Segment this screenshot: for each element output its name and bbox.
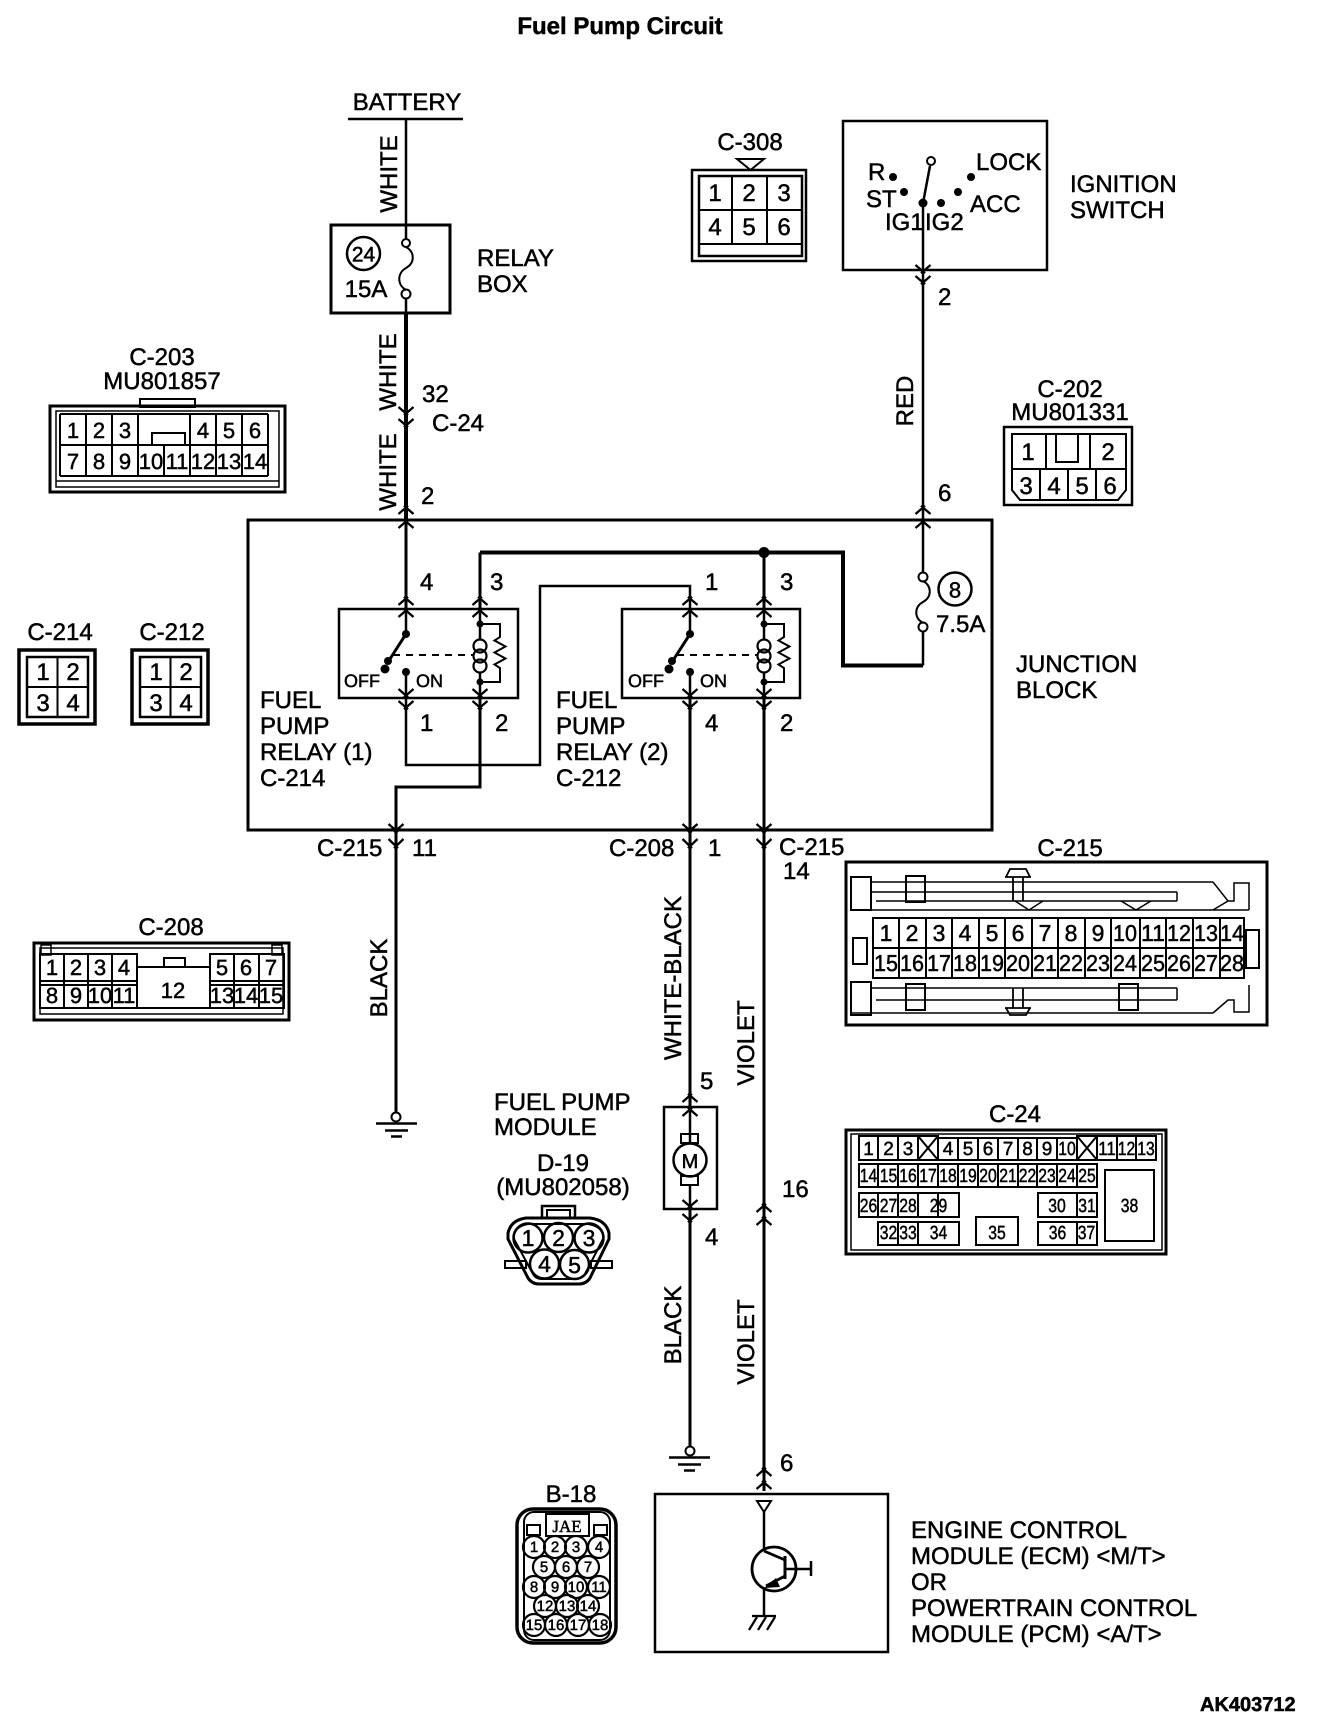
svg-text:24: 24 bbox=[352, 244, 376, 267]
svg-text:3: 3 bbox=[583, 1225, 596, 1251]
svg-text:JUNCTION: JUNCTION bbox=[1016, 651, 1137, 678]
svg-text:16: 16 bbox=[899, 1166, 917, 1187]
svg-text:32: 32 bbox=[880, 1223, 898, 1244]
svg-text:1: 1 bbox=[863, 1139, 874, 1160]
svg-text:16: 16 bbox=[900, 950, 924, 976]
svg-text:1: 1 bbox=[530, 1539, 538, 1556]
wire ignition to junction block (RED) bbox=[922, 270, 925, 519]
svg-text:7: 7 bbox=[1039, 920, 1052, 946]
bottom rail bbox=[851, 982, 871, 1015]
svg-text:BLACK: BLACK bbox=[660, 1286, 687, 1365]
row3 bbox=[859, 1193, 938, 1217]
svg-text:29: 29 bbox=[930, 1196, 948, 1217]
svg-text:15: 15 bbox=[874, 950, 898, 976]
svg-text:8: 8 bbox=[530, 1579, 538, 1596]
svg-text:M: M bbox=[682, 1151, 699, 1173]
svg-text:7.5A: 7.5A bbox=[936, 611, 985, 638]
relay1 coil bbox=[474, 609, 487, 698]
svg-text:11: 11 bbox=[113, 983, 136, 1008]
svg-text:14: 14 bbox=[783, 858, 810, 885]
svg-text:3: 3 bbox=[149, 690, 162, 717]
svg-text:26: 26 bbox=[1167, 950, 1191, 976]
svg-text:34: 34 bbox=[930, 1223, 948, 1244]
svg-text:C-203: C-203 bbox=[129, 344, 194, 371]
svg-text:C-208: C-208 bbox=[138, 914, 203, 941]
wire relay1 pin1 to relay2 pin1 bbox=[406, 586, 690, 765]
svg-text:22: 22 bbox=[1019, 1166, 1037, 1187]
svg-text:5: 5 bbox=[568, 1252, 581, 1278]
svg-text:18: 18 bbox=[939, 1166, 957, 1187]
svg-text:2: 2 bbox=[66, 659, 79, 686]
svg-text:ENGINE CONTROL: ENGINE CONTROL bbox=[911, 1517, 1127, 1544]
svg-text:17: 17 bbox=[570, 1617, 587, 1634]
number grid bbox=[873, 918, 1244, 978]
svg-text:2: 2 bbox=[552, 1225, 565, 1251]
svg-text:30: 30 bbox=[1048, 1196, 1066, 1217]
svg-text:3: 3 bbox=[119, 418, 131, 443]
pump motor M bbox=[674, 1107, 707, 1209]
svg-text:IG2: IG2 bbox=[925, 209, 964, 236]
svg-text:19: 19 bbox=[959, 1166, 977, 1187]
bus wire from relay1 pin3 to fuse bbox=[480, 551, 923, 666]
svg-text:1: 1 bbox=[708, 835, 721, 862]
relay box bbox=[331, 225, 554, 313]
svg-text:OR: OR bbox=[911, 1569, 947, 1596]
svg-text:5: 5 bbox=[700, 1068, 713, 1095]
svg-text:1: 1 bbox=[705, 569, 718, 596]
svg-text:B-18: B-18 bbox=[546, 1481, 597, 1508]
svg-text:RELAY (1): RELAY (1) bbox=[260, 739, 373, 766]
connector C-215 big bbox=[846, 835, 1267, 1025]
svg-text:22: 22 bbox=[1059, 950, 1083, 976]
svg-text:12: 12 bbox=[1118, 1139, 1136, 1160]
svg-text:10: 10 bbox=[568, 1579, 585, 1596]
svg-text:20: 20 bbox=[979, 1166, 997, 1187]
svg-text:14: 14 bbox=[243, 449, 267, 474]
ground left bbox=[376, 1113, 417, 1137]
svg-text:11: 11 bbox=[1141, 920, 1165, 946]
svg-text:7: 7 bbox=[584, 1559, 592, 1576]
connector C-208 bbox=[34, 914, 289, 1020]
svg-text:3: 3 bbox=[777, 180, 790, 207]
svg-text:10: 10 bbox=[88, 983, 112, 1008]
svg-text:21: 21 bbox=[1033, 950, 1057, 976]
svg-text:4: 4 bbox=[66, 690, 79, 717]
relay1 coil resistor bbox=[480, 624, 506, 682]
svg-text:33: 33 bbox=[899, 1223, 917, 1244]
svg-text:10: 10 bbox=[1058, 1139, 1076, 1160]
svg-text:4: 4 bbox=[595, 1539, 603, 1556]
svg-text:7: 7 bbox=[1003, 1139, 1014, 1160]
svg-text:17: 17 bbox=[927, 950, 951, 976]
connector C-203 bbox=[50, 344, 285, 492]
svg-text:5: 5 bbox=[216, 955, 228, 980]
svg-text:24: 24 bbox=[1058, 1166, 1076, 1187]
svg-text:9: 9 bbox=[119, 449, 131, 474]
svg-text:LOCK: LOCK bbox=[976, 149, 1041, 176]
wire relay2 pin4 down bbox=[689, 698, 692, 830]
relay1 dashed link bbox=[393, 654, 473, 656]
wire relay1 pin2 to C-215 exit bbox=[396, 698, 480, 830]
svg-text:WHITE: WHITE bbox=[375, 433, 402, 510]
svg-text:20: 20 bbox=[1006, 950, 1030, 976]
svg-text:C-208: C-208 bbox=[609, 835, 674, 862]
ignition switch box bbox=[843, 121, 1177, 270]
connector arrows C-24 bbox=[399, 407, 414, 427]
row2 bbox=[859, 1164, 1097, 1187]
ECM input triangle bbox=[757, 1501, 771, 1512]
svg-text:8: 8 bbox=[949, 578, 961, 603]
ignition position labels bbox=[866, 149, 1041, 236]
svg-text:8: 8 bbox=[46, 983, 58, 1008]
relay2 pin arrows top bbox=[683, 597, 698, 617]
svg-text:(MU802058): (MU802058) bbox=[496, 1174, 629, 1201]
svg-text:MODULE (PCM) <A/T>: MODULE (PCM) <A/T> bbox=[911, 1621, 1162, 1648]
svg-text:5: 5 bbox=[1075, 473, 1088, 500]
node junction dot bbox=[759, 547, 770, 558]
svg-text:28: 28 bbox=[1220, 950, 1244, 976]
svg-text:BLACK: BLACK bbox=[366, 939, 393, 1018]
svg-text:3: 3 bbox=[1019, 473, 1032, 500]
svg-text:1: 1 bbox=[880, 920, 893, 946]
wire battery to relay box bbox=[405, 119, 408, 239]
svg-text:2: 2 bbox=[93, 418, 105, 443]
svg-text:MU801857: MU801857 bbox=[103, 368, 220, 395]
svg-text:C-214: C-214 bbox=[27, 619, 92, 646]
svg-text:4: 4 bbox=[943, 1139, 954, 1160]
row4 bbox=[878, 1222, 918, 1245]
wire entry right (red) to fuse bbox=[922, 520, 925, 573]
svg-text:23: 23 bbox=[1086, 950, 1110, 976]
svg-text:6: 6 bbox=[249, 418, 261, 443]
connector C-202 bbox=[1004, 376, 1132, 505]
svg-text:12: 12 bbox=[537, 1598, 554, 1615]
svg-text:3: 3 bbox=[780, 569, 793, 596]
svg-text:13: 13 bbox=[1194, 920, 1218, 946]
row1 bbox=[859, 1136, 938, 1160]
svg-text:PUMP: PUMP bbox=[556, 713, 625, 740]
svg-text:1: 1 bbox=[522, 1225, 535, 1251]
wire relay2 pin2 down bbox=[763, 698, 766, 830]
fuse 8 7.5A bbox=[916, 573, 985, 666]
svg-text:9: 9 bbox=[70, 983, 82, 1008]
svg-text:27: 27 bbox=[1194, 950, 1218, 976]
svg-text:3: 3 bbox=[94, 955, 106, 980]
svg-text:4: 4 bbox=[708, 214, 721, 241]
relay1 pin arrows bottom bbox=[399, 689, 414, 709]
transistor Q1 bbox=[752, 1512, 811, 1616]
svg-text:17: 17 bbox=[919, 1166, 937, 1187]
svg-text:10: 10 bbox=[139, 449, 163, 474]
svg-text:IG1: IG1 bbox=[885, 209, 924, 236]
svg-text:4: 4 bbox=[420, 569, 433, 596]
relay1 pin labels bbox=[420, 569, 508, 737]
svg-text:11: 11 bbox=[1098, 1139, 1116, 1160]
connector D-19 bbox=[496, 1150, 629, 1284]
ECM box bbox=[655, 1494, 1197, 1652]
svg-text:4: 4 bbox=[705, 1224, 718, 1251]
svg-text:1: 1 bbox=[708, 180, 721, 207]
svg-text:PUMP: PUMP bbox=[260, 713, 329, 740]
svg-text:MU801331: MU801331 bbox=[1011, 399, 1128, 426]
svg-text:23: 23 bbox=[1038, 1166, 1056, 1187]
svg-text:6: 6 bbox=[1103, 473, 1116, 500]
svg-text:C-214: C-214 bbox=[260, 765, 325, 792]
svg-text:6: 6 bbox=[562, 1559, 570, 1576]
svg-text:7: 7 bbox=[67, 449, 79, 474]
svg-text:C-215: C-215 bbox=[1037, 835, 1102, 862]
svg-text:6: 6 bbox=[938, 480, 951, 507]
svg-text:1: 1 bbox=[1021, 439, 1034, 466]
svg-text:11: 11 bbox=[591, 1579, 607, 1596]
svg-text:15: 15 bbox=[526, 1617, 543, 1634]
connector C-308 bbox=[692, 129, 806, 261]
wire WHITE-BLACK bbox=[689, 830, 692, 1107]
svg-text:25: 25 bbox=[1078, 1166, 1096, 1187]
junction block bbox=[248, 520, 992, 830]
relay2 coil bbox=[758, 609, 771, 698]
svg-text:FUEL: FUEL bbox=[556, 687, 617, 714]
svg-text:5: 5 bbox=[223, 418, 235, 443]
wire BLACK to ground bbox=[395, 830, 398, 1113]
svg-text:8: 8 bbox=[93, 449, 105, 474]
svg-text:ON: ON bbox=[700, 671, 727, 691]
arrows below ignition bbox=[916, 265, 931, 284]
svg-text:24: 24 bbox=[1113, 950, 1137, 976]
svg-text:14: 14 bbox=[234, 983, 258, 1008]
svg-text:12: 12 bbox=[161, 978, 185, 1003]
svg-text:11: 11 bbox=[412, 835, 437, 862]
svg-text:C-308: C-308 bbox=[717, 129, 782, 156]
svg-text:6: 6 bbox=[983, 1139, 994, 1160]
svg-text:3: 3 bbox=[933, 920, 946, 946]
wire relay2 pin3 bbox=[763, 553, 766, 610]
svg-text:C-24: C-24 bbox=[432, 410, 484, 437]
wire relay1 pin3 bbox=[479, 553, 482, 610]
svg-text:6: 6 bbox=[1012, 920, 1025, 946]
svg-text:27: 27 bbox=[880, 1196, 898, 1217]
relay2 pin arrows bottom bbox=[683, 689, 698, 709]
svg-text:15: 15 bbox=[259, 983, 283, 1008]
pump module entry arrows bbox=[683, 1094, 698, 1116]
svg-text:3: 3 bbox=[572, 1539, 580, 1556]
relay1 pin arrows top bbox=[399, 597, 414, 617]
38 cell bbox=[1105, 1170, 1154, 1241]
svg-text:10: 10 bbox=[1113, 920, 1137, 946]
relay2 pin labels bbox=[705, 569, 793, 737]
wire BLACK lower bbox=[689, 1209, 692, 1447]
svg-text:2: 2 bbox=[1101, 439, 1114, 466]
svg-text:37: 37 bbox=[1078, 1223, 1096, 1244]
svg-text:SWITCH: SWITCH bbox=[1070, 197, 1165, 224]
svg-text:2: 2 bbox=[938, 284, 951, 311]
svg-text:15A: 15A bbox=[345, 276, 388, 303]
svg-text:OFF: OFF bbox=[344, 671, 380, 691]
fuse 24 15A bbox=[345, 237, 413, 303]
svg-text:C-212: C-212 bbox=[556, 765, 621, 792]
svg-text:2: 2 bbox=[906, 920, 919, 946]
svg-text:3: 3 bbox=[490, 569, 503, 596]
svg-text:2: 2 bbox=[742, 180, 755, 207]
svg-text:38: 38 bbox=[1121, 1196, 1139, 1217]
svg-text:5: 5 bbox=[986, 920, 999, 946]
svg-text:5: 5 bbox=[540, 1559, 548, 1576]
svg-text:Fuel Pump Circuit: Fuel Pump Circuit bbox=[517, 13, 722, 40]
svg-text:13: 13 bbox=[210, 983, 234, 1008]
svg-text:1: 1 bbox=[420, 710, 433, 737]
connector C-212 bbox=[132, 619, 208, 724]
svg-text:WHITE: WHITE bbox=[375, 333, 402, 410]
svg-text:4: 4 bbox=[538, 1251, 551, 1277]
svg-text:16: 16 bbox=[782, 1176, 809, 1203]
svg-text:1: 1 bbox=[36, 659, 49, 686]
svg-text:AK403712: AK403712 bbox=[1200, 1694, 1296, 1716]
svg-text:ON: ON bbox=[416, 671, 443, 691]
svg-text:JAE: JAE bbox=[552, 1517, 581, 1536]
ignition switch contacts bbox=[889, 173, 975, 208]
svg-text:2: 2 bbox=[551, 1539, 559, 1556]
svg-text:C-24: C-24 bbox=[989, 1101, 1041, 1128]
svg-text:C-215: C-215 bbox=[317, 835, 382, 862]
svg-text:2: 2 bbox=[495, 710, 508, 737]
svg-text:26: 26 bbox=[860, 1196, 878, 1217]
wire VIOLET bbox=[763, 830, 766, 1491]
svg-text:31: 31 bbox=[1078, 1196, 1096, 1217]
svg-text:19: 19 bbox=[980, 950, 1004, 976]
connector B-18 bbox=[517, 1481, 616, 1643]
svg-text:POWERTRAIN CONTROL: POWERTRAIN CONTROL bbox=[911, 1595, 1197, 1622]
svg-text:4: 4 bbox=[959, 920, 972, 946]
svg-text:13: 13 bbox=[1137, 1139, 1155, 1160]
svg-text:C-212: C-212 bbox=[139, 619, 204, 646]
svg-text:13: 13 bbox=[559, 1598, 576, 1615]
connector C-24 bbox=[846, 1101, 1166, 1254]
svg-text:5: 5 bbox=[963, 1139, 974, 1160]
relay2 switch bbox=[628, 609, 727, 698]
svg-text:R: R bbox=[868, 159, 885, 186]
pump module exit arrows bbox=[683, 1200, 698, 1222]
svg-text:3: 3 bbox=[903, 1139, 914, 1160]
svg-text:RELAY: RELAY bbox=[477, 245, 554, 272]
relay2 coil resistor bbox=[764, 624, 790, 682]
exit arrows C-215 14 bbox=[757, 824, 772, 848]
svg-text:RED: RED bbox=[892, 376, 919, 427]
svg-text:VIOLET: VIOLET bbox=[733, 1000, 760, 1086]
svg-text:WHITE-BLACK: WHITE-BLACK bbox=[660, 896, 687, 1060]
svg-text:15: 15 bbox=[880, 1166, 898, 1187]
relay1 switch bbox=[344, 609, 443, 698]
svg-text:36: 36 bbox=[1049, 1223, 1067, 1244]
svg-text:18: 18 bbox=[592, 1617, 609, 1634]
svg-text:2: 2 bbox=[780, 710, 793, 737]
svg-text:MODULE (ECM) <M/T>: MODULE (ECM) <M/T> bbox=[911, 1543, 1166, 1570]
svg-text:14: 14 bbox=[580, 1598, 597, 1615]
svg-text:12: 12 bbox=[1167, 920, 1191, 946]
svg-text:1: 1 bbox=[149, 659, 162, 686]
svg-text:16: 16 bbox=[548, 1617, 565, 1634]
fuel pump relay 1 bbox=[260, 609, 518, 792]
svg-text:C-215: C-215 bbox=[779, 834, 844, 861]
battery bbox=[348, 89, 463, 119]
svg-text:4: 4 bbox=[118, 955, 130, 980]
svg-text:6: 6 bbox=[777, 214, 790, 241]
svg-text:9: 9 bbox=[1092, 920, 1105, 946]
top rail bbox=[851, 877, 871, 910]
svg-text:21: 21 bbox=[999, 1166, 1017, 1187]
svg-text:OFF: OFF bbox=[628, 671, 664, 691]
svg-text:12: 12 bbox=[191, 449, 215, 474]
svg-text:1: 1 bbox=[67, 418, 79, 443]
svg-text:D-19: D-19 bbox=[537, 1150, 589, 1177]
svg-text:28: 28 bbox=[899, 1196, 917, 1217]
connector C-214 bbox=[19, 619, 95, 724]
fuel pump module bbox=[494, 1089, 717, 1209]
svg-text:MODULE: MODULE bbox=[494, 1114, 597, 1141]
svg-text:11: 11 bbox=[166, 449, 189, 474]
svg-text:FUEL: FUEL bbox=[260, 687, 321, 714]
svg-text:BATTERY: BATTERY bbox=[353, 89, 461, 116]
svg-text:2: 2 bbox=[883, 1139, 894, 1160]
junction entry arrows right bbox=[916, 506, 931, 528]
ignition switch lever bbox=[923, 166, 930, 203]
transistor ground bbox=[749, 1616, 776, 1630]
svg-text:RELAY (2): RELAY (2) bbox=[556, 739, 669, 766]
ECM entry arrows bbox=[757, 1468, 772, 1489]
fuel pump relay 2 bbox=[556, 609, 800, 792]
exit arrows C-215 11 bbox=[389, 824, 404, 848]
svg-text:2: 2 bbox=[179, 659, 192, 686]
wire entry left inside block bbox=[405, 520, 408, 609]
svg-text:BLOCK: BLOCK bbox=[1016, 677, 1097, 704]
svg-text:25: 25 bbox=[1141, 950, 1165, 976]
svg-text:2: 2 bbox=[70, 955, 82, 980]
svg-text:VIOLET: VIOLET bbox=[733, 1299, 760, 1385]
ground pump bbox=[669, 1447, 710, 1471]
svg-text:4: 4 bbox=[705, 710, 718, 737]
svg-text:4: 4 bbox=[1047, 473, 1060, 500]
svg-text:IGNITION: IGNITION bbox=[1070, 171, 1177, 198]
svg-text:5: 5 bbox=[742, 214, 755, 241]
relay2 dashed link bbox=[677, 654, 757, 656]
arrows 16 bbox=[757, 1204, 772, 1225]
svg-text:BOX: BOX bbox=[477, 271, 528, 298]
side brackets bbox=[853, 938, 867, 964]
svg-text:9: 9 bbox=[551, 1579, 559, 1596]
svg-text:6: 6 bbox=[240, 955, 252, 980]
exit arrows C-208 1 bbox=[683, 824, 698, 848]
svg-text:8: 8 bbox=[1022, 1139, 1033, 1160]
svg-text:14: 14 bbox=[1220, 920, 1244, 946]
svg-text:8: 8 bbox=[1065, 920, 1078, 946]
svg-text:1: 1 bbox=[46, 955, 58, 980]
svg-text:WHITE: WHITE bbox=[376, 135, 403, 212]
svg-text:4: 4 bbox=[179, 690, 192, 717]
svg-text:3: 3 bbox=[36, 690, 49, 717]
svg-text:9: 9 bbox=[1042, 1139, 1053, 1160]
svg-text:7: 7 bbox=[265, 955, 277, 980]
svg-text:6: 6 bbox=[780, 1450, 793, 1477]
svg-text:ACC: ACC bbox=[970, 191, 1021, 218]
svg-text:FUEL PUMP: FUEL PUMP bbox=[494, 1089, 630, 1116]
svg-text:14: 14 bbox=[860, 1166, 878, 1187]
svg-text:32: 32 bbox=[422, 381, 449, 408]
svg-text:2: 2 bbox=[421, 483, 434, 510]
wire relay box to junction block (WHITE) bbox=[405, 298, 408, 313]
svg-text:13: 13 bbox=[217, 449, 241, 474]
junction entry arrows left bbox=[399, 506, 414, 528]
svg-text:35: 35 bbox=[988, 1223, 1006, 1244]
svg-text:18: 18 bbox=[953, 950, 977, 976]
